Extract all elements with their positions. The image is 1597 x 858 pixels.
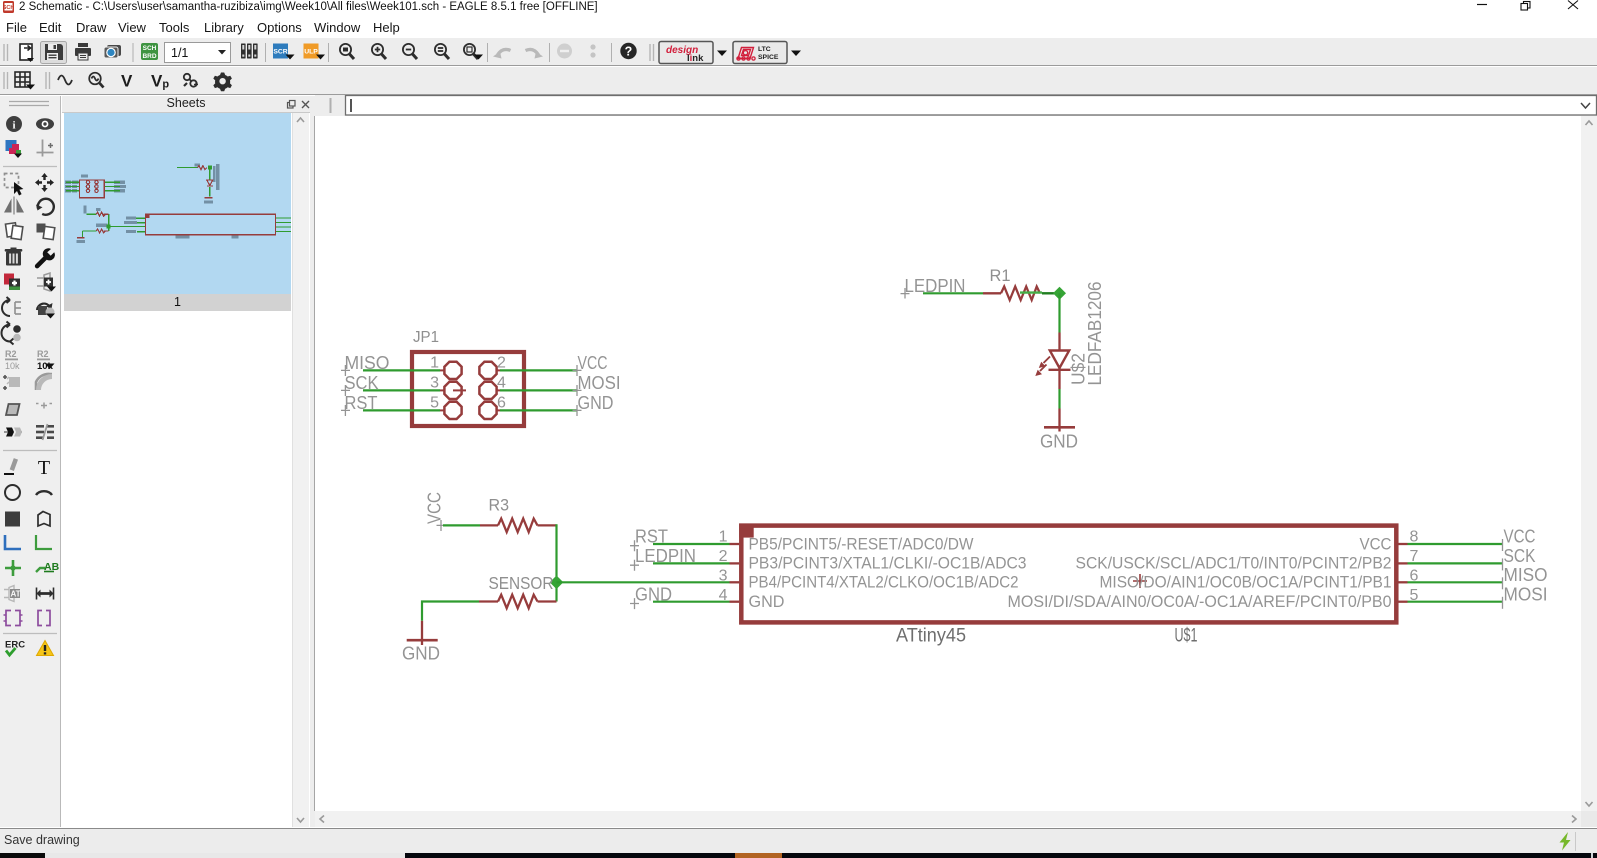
svg-text:SPICE: SPICE <box>758 54 779 61</box>
wire net LEDPIN to R1 <box>923 292 983 294</box>
label SENSOR <box>489 573 554 593</box>
label MISO <box>341 353 390 376</box>
pin 5 stub JP1 <box>440 409 445 411</box>
label VCC right <box>1503 527 1536 552</box>
junction node SENSOR <box>550 576 564 590</box>
wire net VCC from JP1 pin 2 <box>500 369 577 371</box>
IC pin 6 stub <box>1399 581 1408 583</box>
IC value ATtiny45 <box>896 625 966 647</box>
IC pin 3 stub <box>730 581 740 583</box>
label MOSI right <box>1503 585 1548 609</box>
svg-text:SCH: SCH <box>3 5 15 11</box>
wire to junction <box>1042 292 1054 294</box>
wire net MISO to JP1 pin 1 <box>363 369 440 371</box>
svg-text:?: ? <box>625 45 633 59</box>
label SCK <box>341 373 379 396</box>
pin 4 stub JP1 <box>497 389 501 391</box>
svg-text:SCH: SCH <box>143 45 157 52</box>
svg-text:1/1: 1/1 <box>171 46 188 60</box>
IC pin 8 stub <box>1399 543 1408 545</box>
pin 6 stub JP1 <box>497 409 501 411</box>
label GND right of JP1 <box>573 393 614 416</box>
pin 1 stub JP1 <box>440 369 445 371</box>
label VCC right of JP1 <box>573 353 608 376</box>
LED U$2 LEDFAB1206 <box>1035 282 1105 386</box>
svg-text:T: T <box>38 457 50 479</box>
wire net MOSI from JP1 pin 4 <box>500 389 577 391</box>
IC pin names right <box>1008 534 1392 611</box>
ground GND under sensor <box>402 621 440 664</box>
svg-text:ULP: ULP <box>304 49 318 56</box>
IC pin 4 stub <box>730 601 740 603</box>
supply label VCC vertical <box>425 492 446 531</box>
ground GND under LED <box>1040 409 1078 452</box>
wire IC pin 7 to SCK <box>1408 562 1503 564</box>
svg-text:i: i <box>12 120 15 132</box>
wire GND to IC pin 4 <box>653 601 730 603</box>
label RST <box>341 393 378 416</box>
svg-text:LTC: LTC <box>758 46 771 53</box>
wire junction to IC pin 3 <box>557 581 730 583</box>
label SCK right <box>1503 546 1536 570</box>
IC U$1 ATtiny45 body <box>739 524 1396 623</box>
resistor R1 <box>983 266 1040 300</box>
wire sensor resistor to GND <box>422 602 479 621</box>
wire overlay net over R1 <box>1020 291 1042 293</box>
IC left pin numbers <box>719 529 728 605</box>
LED U$2 anode pin <box>1058 333 1060 351</box>
wire IC pin 5 to MOSI <box>1408 601 1503 603</box>
wire R3 down to junction <box>555 524 557 601</box>
wire LEDPIN to IC pin 2 <box>653 562 730 564</box>
IC origin cross <box>1133 574 1147 588</box>
svg-text:10k: 10k <box>5 361 20 371</box>
svg-text:AT: AT <box>11 590 21 599</box>
svg-text:R2: R2 <box>37 349 49 359</box>
junction node R1/LED <box>1053 287 1066 300</box>
label MISO right <box>1503 565 1548 589</box>
svg-text:BRD: BRD <box>142 53 156 60</box>
IC pin 5 stub <box>1399 601 1408 603</box>
label GND at IC pin 4 <box>630 584 672 609</box>
wire IC pin 8 to VCC <box>1408 543 1503 545</box>
IC pin 2 stub <box>730 562 740 564</box>
IC pin 1 stub <box>730 543 740 545</box>
svg-text:V: V <box>121 72 133 91</box>
IC right pin numbers <box>1410 529 1419 605</box>
IC pin 7 stub <box>1399 562 1408 564</box>
label LEDPIN at IC pin 2 <box>630 546 696 571</box>
wire net SCK to JP1 pin 3 <box>363 389 440 391</box>
svg-text:Vp: Vp <box>151 72 169 91</box>
label MOSI right of JP1 <box>573 373 621 396</box>
pin 3 stub JP1 <box>440 389 467 391</box>
label LEDPIN <box>901 276 966 299</box>
pin numbers JP1 <box>430 355 506 412</box>
wire RST to IC pin 1 <box>653 543 730 545</box>
wire IC pin 6 to MISO <box>1408 581 1503 583</box>
LED cathode pin <box>1058 368 1060 389</box>
connector JP1 <box>412 329 524 426</box>
svg-text:link: link <box>687 53 704 64</box>
label RST at IC pin 1 <box>630 527 668 552</box>
wire VCC to R3 <box>443 524 480 526</box>
resistor SENSOR (R2) <box>479 595 557 609</box>
resistor R3 <box>480 496 557 533</box>
wire net RST to JP1 pin 5 <box>363 409 440 411</box>
pin 2 stub JP1 <box>497 369 501 371</box>
wire junction down to LED <box>1058 293 1060 332</box>
IC pin names left <box>749 534 1027 611</box>
IC name U$1 <box>1175 625 1198 647</box>
wire net GND from JP1 pin 6 <box>500 409 577 411</box>
svg-text:R2: R2 <box>5 349 17 359</box>
svg-text:SCR: SCR <box>273 49 287 56</box>
wire LED to GND <box>1058 389 1060 409</box>
